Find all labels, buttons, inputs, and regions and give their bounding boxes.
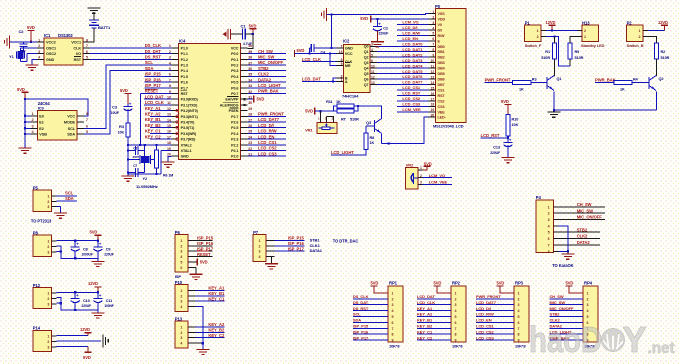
net label DATA2 (RP4) xyxy=(550,324,563,329)
svg-text:IC3: IC3 xyxy=(38,106,45,111)
net label KEY_B1 (RP2) xyxy=(417,318,433,323)
svg-text:2: 2 xyxy=(47,297,49,301)
svg-text:CS3: CS3 xyxy=(438,105,445,109)
transistor Q1 xyxy=(547,76,561,91)
resistor R9 510R xyxy=(568,37,584,61)
svg-text:3: 3 xyxy=(47,250,49,254)
wire backlight collector xyxy=(354,105,382,119)
svg-text:C9: C9 xyxy=(106,247,111,251)
svg-text:1K: 1K xyxy=(336,100,341,104)
svg-text:KEY_A2: KEY_A2 xyxy=(417,312,433,317)
wire net LCD_DAT4 xyxy=(377,63,428,68)
svg-text:5: 5 xyxy=(548,231,550,235)
svg-text:ISP_P15: ISP_P15 xyxy=(145,72,162,77)
svg-text:6: 6 xyxy=(548,237,550,241)
svg-text:10K*8: 10K*8 xyxy=(515,343,526,348)
svg-text:10: 10 xyxy=(431,59,435,63)
wire net LCD_CS2 xyxy=(247,146,286,151)
svg-text:STB2: STB2 xyxy=(258,66,269,71)
connector P8 xyxy=(33,231,57,257)
power 5VD (reset circuit) xyxy=(120,88,132,104)
svg-text:5: 5 xyxy=(455,315,457,319)
net label SDA xyxy=(145,66,154,71)
svg-text:8: 8 xyxy=(455,333,457,337)
svg-text:5VD: 5VD xyxy=(360,16,368,21)
capacitor C8 1000UF xyxy=(71,241,93,259)
svg-text:P3.7(RD): P3.7(RD) xyxy=(181,138,197,142)
svg-text:510R: 510R xyxy=(350,117,359,121)
svg-text:5: 5 xyxy=(432,32,434,36)
wire net ISP_P16 (P7) xyxy=(266,241,321,248)
wire net MIC_SW (P4) xyxy=(558,208,604,213)
label TO KaraOK xyxy=(552,263,573,268)
svg-text:Q0: Q0 xyxy=(364,45,369,49)
net label LCD_CS2 (RP3) xyxy=(476,329,495,334)
connector P6 ISP xyxy=(175,230,196,279)
svg-text:Standby LED: Standby LED xyxy=(581,43,605,48)
svg-text:3: 3 xyxy=(180,300,182,304)
svg-text:MR: MR xyxy=(345,64,351,68)
svg-text:VCC1: VCC1 xyxy=(71,41,81,45)
svg-text:P1.5: P1.5 xyxy=(181,75,188,79)
svg-text:ALE/PROG: ALE/PROG xyxy=(220,103,239,107)
ground (P7) xyxy=(265,257,278,269)
svg-text:1: 1 xyxy=(455,291,457,295)
power 5VD down (P14) xyxy=(57,346,92,360)
wire net KEY_B2 (P13) xyxy=(188,327,225,332)
svg-text:KEY_B1: KEY_B1 xyxy=(208,291,225,296)
svg-text:LED-: LED- xyxy=(438,116,447,120)
svg-text:MIC_ON/OFF: MIC_ON/OFF xyxy=(577,215,603,220)
svg-text:P0.7: P0.7 xyxy=(231,92,238,96)
wire net ISP_P16 xyxy=(145,77,172,82)
wire net KEY_A2 xyxy=(145,112,172,117)
svg-text:1: 1 xyxy=(180,239,182,243)
svg-text:ISP_P17: ISP_P17 xyxy=(197,246,214,251)
svg-text:E0: E0 xyxy=(39,114,43,118)
svg-text:3: 3 xyxy=(518,303,520,307)
net label DS_RST (RP1) xyxy=(353,306,369,311)
svg-text:SDA: SDA xyxy=(145,66,154,71)
ground under IC1 GND pin xyxy=(26,59,39,70)
svg-text:P3.0(RXD): P3.0(RXD) xyxy=(181,98,199,102)
svg-text:5: 5 xyxy=(86,56,88,60)
svg-text:1: 1 xyxy=(259,239,261,243)
net label LCD_EN (RP3) xyxy=(476,318,492,323)
svg-text:RST: RST xyxy=(438,94,446,98)
net label SDA (RP1) xyxy=(353,318,361,323)
svg-text:3: 3 xyxy=(548,218,550,222)
power 12VD (P1) xyxy=(546,20,556,32)
svg-text:6: 6 xyxy=(392,321,394,325)
svg-text:PWR_BAK: PWR_BAK xyxy=(258,89,279,94)
net label SCL (RP1) xyxy=(353,312,361,317)
svg-text:C4: C4 xyxy=(321,50,326,54)
svg-text:VR1: VR1 xyxy=(305,128,313,133)
svg-text:E1: E1 xyxy=(39,121,43,125)
svg-text:220UF: 220UF xyxy=(82,304,92,308)
wire net LCD_DAT6 xyxy=(377,74,428,79)
svg-text:Q2: Q2 xyxy=(364,56,369,60)
watermark haoDY.net xyxy=(529,319,675,360)
svg-text:ISP_P16: ISP_P16 xyxy=(145,77,162,82)
svg-text:RP4: RP4 xyxy=(584,281,593,286)
svg-text:2: 2 xyxy=(169,50,171,54)
svg-text:3: 3 xyxy=(420,181,422,185)
svg-text:4: 4 xyxy=(548,224,550,228)
svg-text:3: 3 xyxy=(371,43,373,47)
svg-text:P1.0: P1.0 xyxy=(181,46,188,50)
wire net RESET xyxy=(140,89,171,94)
capacitor C12 220UF xyxy=(373,19,388,42)
svg-text:TO KaraOK: TO KaraOK xyxy=(552,263,573,268)
svg-text:MIC_SW: MIC_SW xyxy=(550,300,566,305)
ground (P8) xyxy=(91,258,104,266)
svg-text:VEE: VEE xyxy=(438,110,446,114)
ground top (LCD VSS) xyxy=(321,8,332,48)
net label LCD_CS1 (RP3) xyxy=(476,324,495,329)
IC U IC4 MCU AT89S52 xyxy=(167,38,252,159)
svg-text:4: 4 xyxy=(32,130,34,134)
resistor R7 510R xyxy=(337,109,359,121)
svg-text:1K: 1K xyxy=(370,141,375,145)
connector P1 Switch_F xyxy=(525,20,546,48)
svg-text:GND: GND xyxy=(181,155,189,159)
resistor R3 1K xyxy=(513,78,547,92)
wire P8 ground rail xyxy=(57,246,98,259)
resistor pack RP1 xyxy=(353,281,403,349)
wire net LCD_CLK xyxy=(144,100,172,105)
svg-text:100NF: 100NF xyxy=(104,304,114,308)
svg-text:C8: C8 xyxy=(83,247,88,251)
power 5VD (P6) xyxy=(188,259,208,266)
svg-text:RT: RT xyxy=(341,117,347,121)
svg-text:5VD: 5VD xyxy=(434,281,442,286)
net label LCD_CLK (RP2) xyxy=(417,300,435,305)
resistor pack RP3 xyxy=(476,281,529,349)
svg-text:7: 7 xyxy=(518,327,520,331)
wire net RESET (P6) xyxy=(188,252,213,257)
resistor R4 1K xyxy=(614,78,649,92)
label TO DTR_DAC xyxy=(333,239,359,244)
wire net LCD_LIGHT xyxy=(331,134,382,156)
svg-text:LCD_LIGHT: LCD_LIGHT xyxy=(331,150,354,155)
svg-text:P2.5: P2.5 xyxy=(231,126,238,130)
ground (MCU GND pin) xyxy=(162,156,175,167)
svg-text:1: 1 xyxy=(584,35,586,39)
svg-text:C2: C2 xyxy=(19,29,25,34)
svg-text:Q3: Q3 xyxy=(364,61,369,65)
wire net KEY_B2 xyxy=(145,123,172,128)
svg-text:4: 4 xyxy=(38,56,40,60)
svg-text:2: 2 xyxy=(638,35,640,39)
wire 5VD to IC1 pin1 xyxy=(30,41,32,43)
overline RESET net (IC4 row9) xyxy=(145,88,157,90)
svg-text:IC1: IC1 xyxy=(44,33,51,38)
svg-text:2: 2 xyxy=(47,200,49,204)
connector P0 MS12V2048_LCD xyxy=(428,4,466,128)
svg-text:P1.4: P1.4 xyxy=(181,69,189,73)
svg-text:LCD_DAT: LCD_DAT xyxy=(302,77,321,82)
svg-text:R9: R9 xyxy=(575,50,580,54)
svg-text:8: 8 xyxy=(86,38,88,42)
svg-text:2: 2 xyxy=(38,44,40,48)
svg-text:7: 7 xyxy=(86,118,88,122)
svg-text:LCD_D/I: LCD_D/I xyxy=(402,25,417,30)
wire net SDA (P5) xyxy=(57,196,77,201)
svg-text:DB3: DB3 xyxy=(438,61,445,65)
wire net KEY_B1 (P10) xyxy=(188,291,225,296)
svg-text:LCD_CS1: LCD_CS1 xyxy=(402,85,421,90)
svg-text:GND: GND xyxy=(46,58,55,62)
svg-text:12VD: 12VD xyxy=(546,20,556,25)
svg-text:6: 6 xyxy=(518,321,520,325)
svg-text:10: 10 xyxy=(371,65,375,69)
svg-text:RESET: RESET xyxy=(197,252,211,257)
wire net KEY_A1 xyxy=(145,106,172,111)
svg-text:P3.2(INT0): P3.2(INT0) xyxy=(181,109,199,113)
svg-text:VCC: VCC xyxy=(345,52,353,56)
svg-text:1: 1 xyxy=(169,44,171,48)
wire net ISP_P17 (P6) xyxy=(188,246,214,251)
svg-text:KEY_B2: KEY_B2 xyxy=(417,324,433,329)
power 5VD (EA pin) xyxy=(243,96,264,106)
power 5VD (RP1) xyxy=(371,281,389,293)
svg-text:3: 3 xyxy=(455,303,457,307)
wire P1 to H13 xyxy=(546,30,577,32)
svg-text:2: 2 xyxy=(455,297,457,301)
svg-text:+: + xyxy=(76,242,79,247)
svg-text:XTAL1: XTAL1 xyxy=(181,149,192,153)
svg-text:15: 15 xyxy=(431,86,435,90)
net label DS_CLK (RP1) xyxy=(353,294,369,299)
svg-text:1: 1 xyxy=(180,289,182,293)
svg-text:DATA1: DATA1 xyxy=(310,248,323,253)
crystal Y2 xyxy=(128,155,156,181)
svg-text:5VD: 5VD xyxy=(17,87,25,92)
wire net ISP_P17 (P7) xyxy=(266,246,323,253)
svg-text:5: 5 xyxy=(518,315,520,319)
svg-text:1000UF: 1000UF xyxy=(82,252,93,256)
svg-text:12VD: 12VD xyxy=(88,281,98,286)
svg-text:SDA: SDA xyxy=(65,196,74,201)
svg-text:SCL: SCL xyxy=(65,191,74,196)
svg-text:4: 4 xyxy=(371,48,373,52)
svg-text:P3.1(TXD): P3.1(TXD) xyxy=(181,103,199,107)
svg-text:6: 6 xyxy=(455,321,457,325)
wire net KEY_C1 xyxy=(145,129,172,134)
svg-text:10K: 10K xyxy=(512,123,519,127)
overline MR (74HC164) xyxy=(345,62,350,64)
svg-text:1: 1 xyxy=(47,292,49,296)
svg-text:3: 3 xyxy=(259,250,261,254)
wire net LCD_CS1 xyxy=(247,140,286,145)
net label LCD_LIGHT (RP4) xyxy=(550,329,572,334)
wire P8 row1 xyxy=(57,240,99,242)
wire net STB2 xyxy=(247,66,286,71)
svg-text:P0.2: P0.2 xyxy=(231,64,238,68)
svg-text:.net: .net xyxy=(648,340,675,357)
svg-text:TO DTR_DAC: TO DTR_DAC xyxy=(333,239,359,244)
net label KEY_B2 (RP2) xyxy=(417,324,433,329)
wire net LCD_DAT1 xyxy=(377,47,428,52)
svg-text:14: 14 xyxy=(431,81,435,85)
wire net LCD_RST xyxy=(397,91,428,96)
svg-text:LCD_EN: LCD_EN xyxy=(258,134,274,139)
svg-text:2: 2 xyxy=(180,244,182,248)
svg-text:C11: C11 xyxy=(106,299,113,303)
wire net DATA2 (P4) xyxy=(558,240,600,245)
svg-text:1: 1 xyxy=(518,291,520,295)
svg-text:2: 2 xyxy=(47,245,49,249)
ground under 24C64 xyxy=(19,148,32,153)
svg-text:STB2: STB2 xyxy=(550,312,561,317)
svg-text:KEY_C1: KEY_C1 xyxy=(145,129,162,134)
svg-text:H13: H13 xyxy=(582,20,590,25)
svg-text:12: 12 xyxy=(431,70,435,74)
svg-text:2: 2 xyxy=(420,174,422,178)
svg-text:LCM_VO: LCM_VO xyxy=(402,20,418,25)
svg-text:Q3: Q3 xyxy=(366,121,371,125)
capacitor C7 30PF xyxy=(128,164,145,177)
svg-text:4: 4 xyxy=(518,309,520,313)
svg-text:ISP_P15: ISP_P15 xyxy=(353,324,369,329)
connector H13 Standby LED xyxy=(577,20,604,48)
wire net CLK2 xyxy=(247,72,286,77)
svg-text:KEY_A1: KEY_A1 xyxy=(417,306,433,311)
svg-text:2: 2 xyxy=(548,212,550,216)
svg-text:1: 1 xyxy=(180,325,182,329)
battery BATT1 xyxy=(89,12,111,42)
svg-text:1: 1 xyxy=(47,240,49,244)
svg-text:220UF: 220UF xyxy=(104,252,114,256)
svg-text:P2.2: P2.2 xyxy=(231,143,238,147)
svg-text:7: 7 xyxy=(432,43,434,47)
svg-text:P3.5(T1): P3.5(T1) xyxy=(181,126,196,130)
svg-text:VCC2: VCC2 xyxy=(46,41,56,45)
svg-text:KEY_C2: KEY_C2 xyxy=(145,134,162,139)
svg-text:4: 4 xyxy=(259,255,261,259)
svg-text:4.7UF: 4.7UF xyxy=(243,42,252,46)
capacitor C11 100NF xyxy=(93,292,113,310)
net label MIC_ON/OFF (RP4) xyxy=(550,306,575,311)
svg-text:5: 5 xyxy=(371,54,373,58)
svg-text:P1.6: P1.6 xyxy=(181,81,188,85)
wire P10 common xyxy=(188,307,203,343)
svg-text:4: 4 xyxy=(180,255,182,259)
svg-text:3: 3 xyxy=(587,303,589,307)
svg-text:VSS: VSS xyxy=(438,12,446,16)
wire net LCD_EN xyxy=(247,134,286,139)
svg-text:4: 4 xyxy=(587,309,589,313)
net label LCD_DAT7 (RP3) xyxy=(476,300,497,305)
svg-text:8: 8 xyxy=(86,112,88,116)
svg-text:C2: C2 xyxy=(383,27,388,31)
svg-text:MODE: MODE xyxy=(64,121,76,125)
svg-text:SDA: SDA xyxy=(353,318,361,323)
svg-text:LCD_RST: LCD_RST xyxy=(481,133,500,138)
svg-text:DB7: DB7 xyxy=(438,83,445,87)
ground (emitters) xyxy=(547,91,656,117)
svg-text:3: 3 xyxy=(47,303,49,307)
svg-text:2: 2 xyxy=(180,294,182,298)
wire resistors to Q1 collector xyxy=(555,37,571,76)
svg-text:SCL: SCL xyxy=(68,127,76,131)
connector P12 xyxy=(33,283,57,309)
svg-text:Q1: Q1 xyxy=(364,50,369,54)
wire net LCD_CS3 xyxy=(247,151,286,156)
svg-text:R6 1M: R6 1M xyxy=(163,174,173,178)
svg-text:5: 5 xyxy=(180,261,182,265)
capacitor C3 10UF xyxy=(111,101,133,123)
svg-text:OSC2: OSC2 xyxy=(46,52,56,56)
svg-text:3: 3 xyxy=(180,250,182,254)
svg-text:2: 2 xyxy=(518,297,520,301)
svg-text:P0.5: P0.5 xyxy=(231,81,238,85)
svg-text:13: 13 xyxy=(371,81,375,85)
svg-text:+: + xyxy=(378,21,381,26)
capacitor C2 xyxy=(19,29,28,54)
svg-text:LCD_CS3: LCD_CS3 xyxy=(258,151,277,156)
resistor R2 510R xyxy=(648,37,670,76)
svg-text:LCD_DAT6: LCD_DAT6 xyxy=(402,74,423,79)
svg-text:P1.7: P1.7 xyxy=(181,86,188,90)
svg-text:Y2: Y2 xyxy=(143,177,147,181)
resistor pack RP4 xyxy=(550,281,599,349)
svg-text:P2.3: P2.3 xyxy=(231,138,238,142)
wire SCL to MCU xyxy=(84,65,172,128)
svg-text:510R: 510R xyxy=(661,56,670,60)
svg-text:6: 6 xyxy=(180,266,182,270)
svg-text:2: 2 xyxy=(432,15,434,19)
svg-text:LCD_CLK: LCD_CLK xyxy=(145,100,164,105)
net label CLK2 (RP4) xyxy=(550,318,561,323)
power 5VD (RP4) xyxy=(566,281,584,293)
svg-text:3: 3 xyxy=(47,346,49,350)
power 5VD (VR2) xyxy=(423,161,432,170)
svg-text:haoD: haoD xyxy=(529,319,602,360)
wire LED- to Q3 xyxy=(382,117,429,144)
svg-text:LCD_CS2: LCD_CS2 xyxy=(402,96,421,101)
resistor R6 1M xyxy=(154,145,173,178)
svg-text:6: 6 xyxy=(432,37,434,41)
wire net MIC_ON/OFF xyxy=(247,60,286,65)
svg-text:C7: C7 xyxy=(133,164,137,168)
wire reset node xyxy=(127,137,172,176)
power 5VD (MCU VCC) xyxy=(249,23,257,35)
svg-text:Q7: Q7 xyxy=(364,83,369,87)
svg-text:P3.6(WR): P3.6(WR) xyxy=(181,132,197,136)
net label DS_DAT xyxy=(145,49,161,54)
svg-text:+: + xyxy=(509,137,512,142)
svg-text:10K*8: 10K*8 xyxy=(389,343,400,348)
crystal frequency label xyxy=(136,184,158,189)
wire net LCD_DAT3 xyxy=(377,58,428,63)
svg-text:LCD_CS2: LCD_CS2 xyxy=(258,146,277,151)
svg-text:LCD_CS1: LCD_CS1 xyxy=(258,140,277,145)
svg-text:XTAL2: XTAL2 xyxy=(181,143,192,147)
svg-text:Q2: Q2 xyxy=(659,77,664,81)
wire net LCD_RST xyxy=(481,133,510,139)
svg-text:KEY_C1: KEY_C1 xyxy=(417,329,433,334)
svg-text:6: 6 xyxy=(86,50,88,54)
resistor pack RP2 xyxy=(417,281,466,349)
svg-text:KEY_C2: KEY_C2 xyxy=(417,335,433,340)
wire P12 ground rail xyxy=(57,298,98,311)
svg-text:2: 2 xyxy=(32,118,34,122)
svg-text:CH_SW: CH_SW xyxy=(577,202,592,207)
power 5VD (24C64) xyxy=(17,87,29,99)
